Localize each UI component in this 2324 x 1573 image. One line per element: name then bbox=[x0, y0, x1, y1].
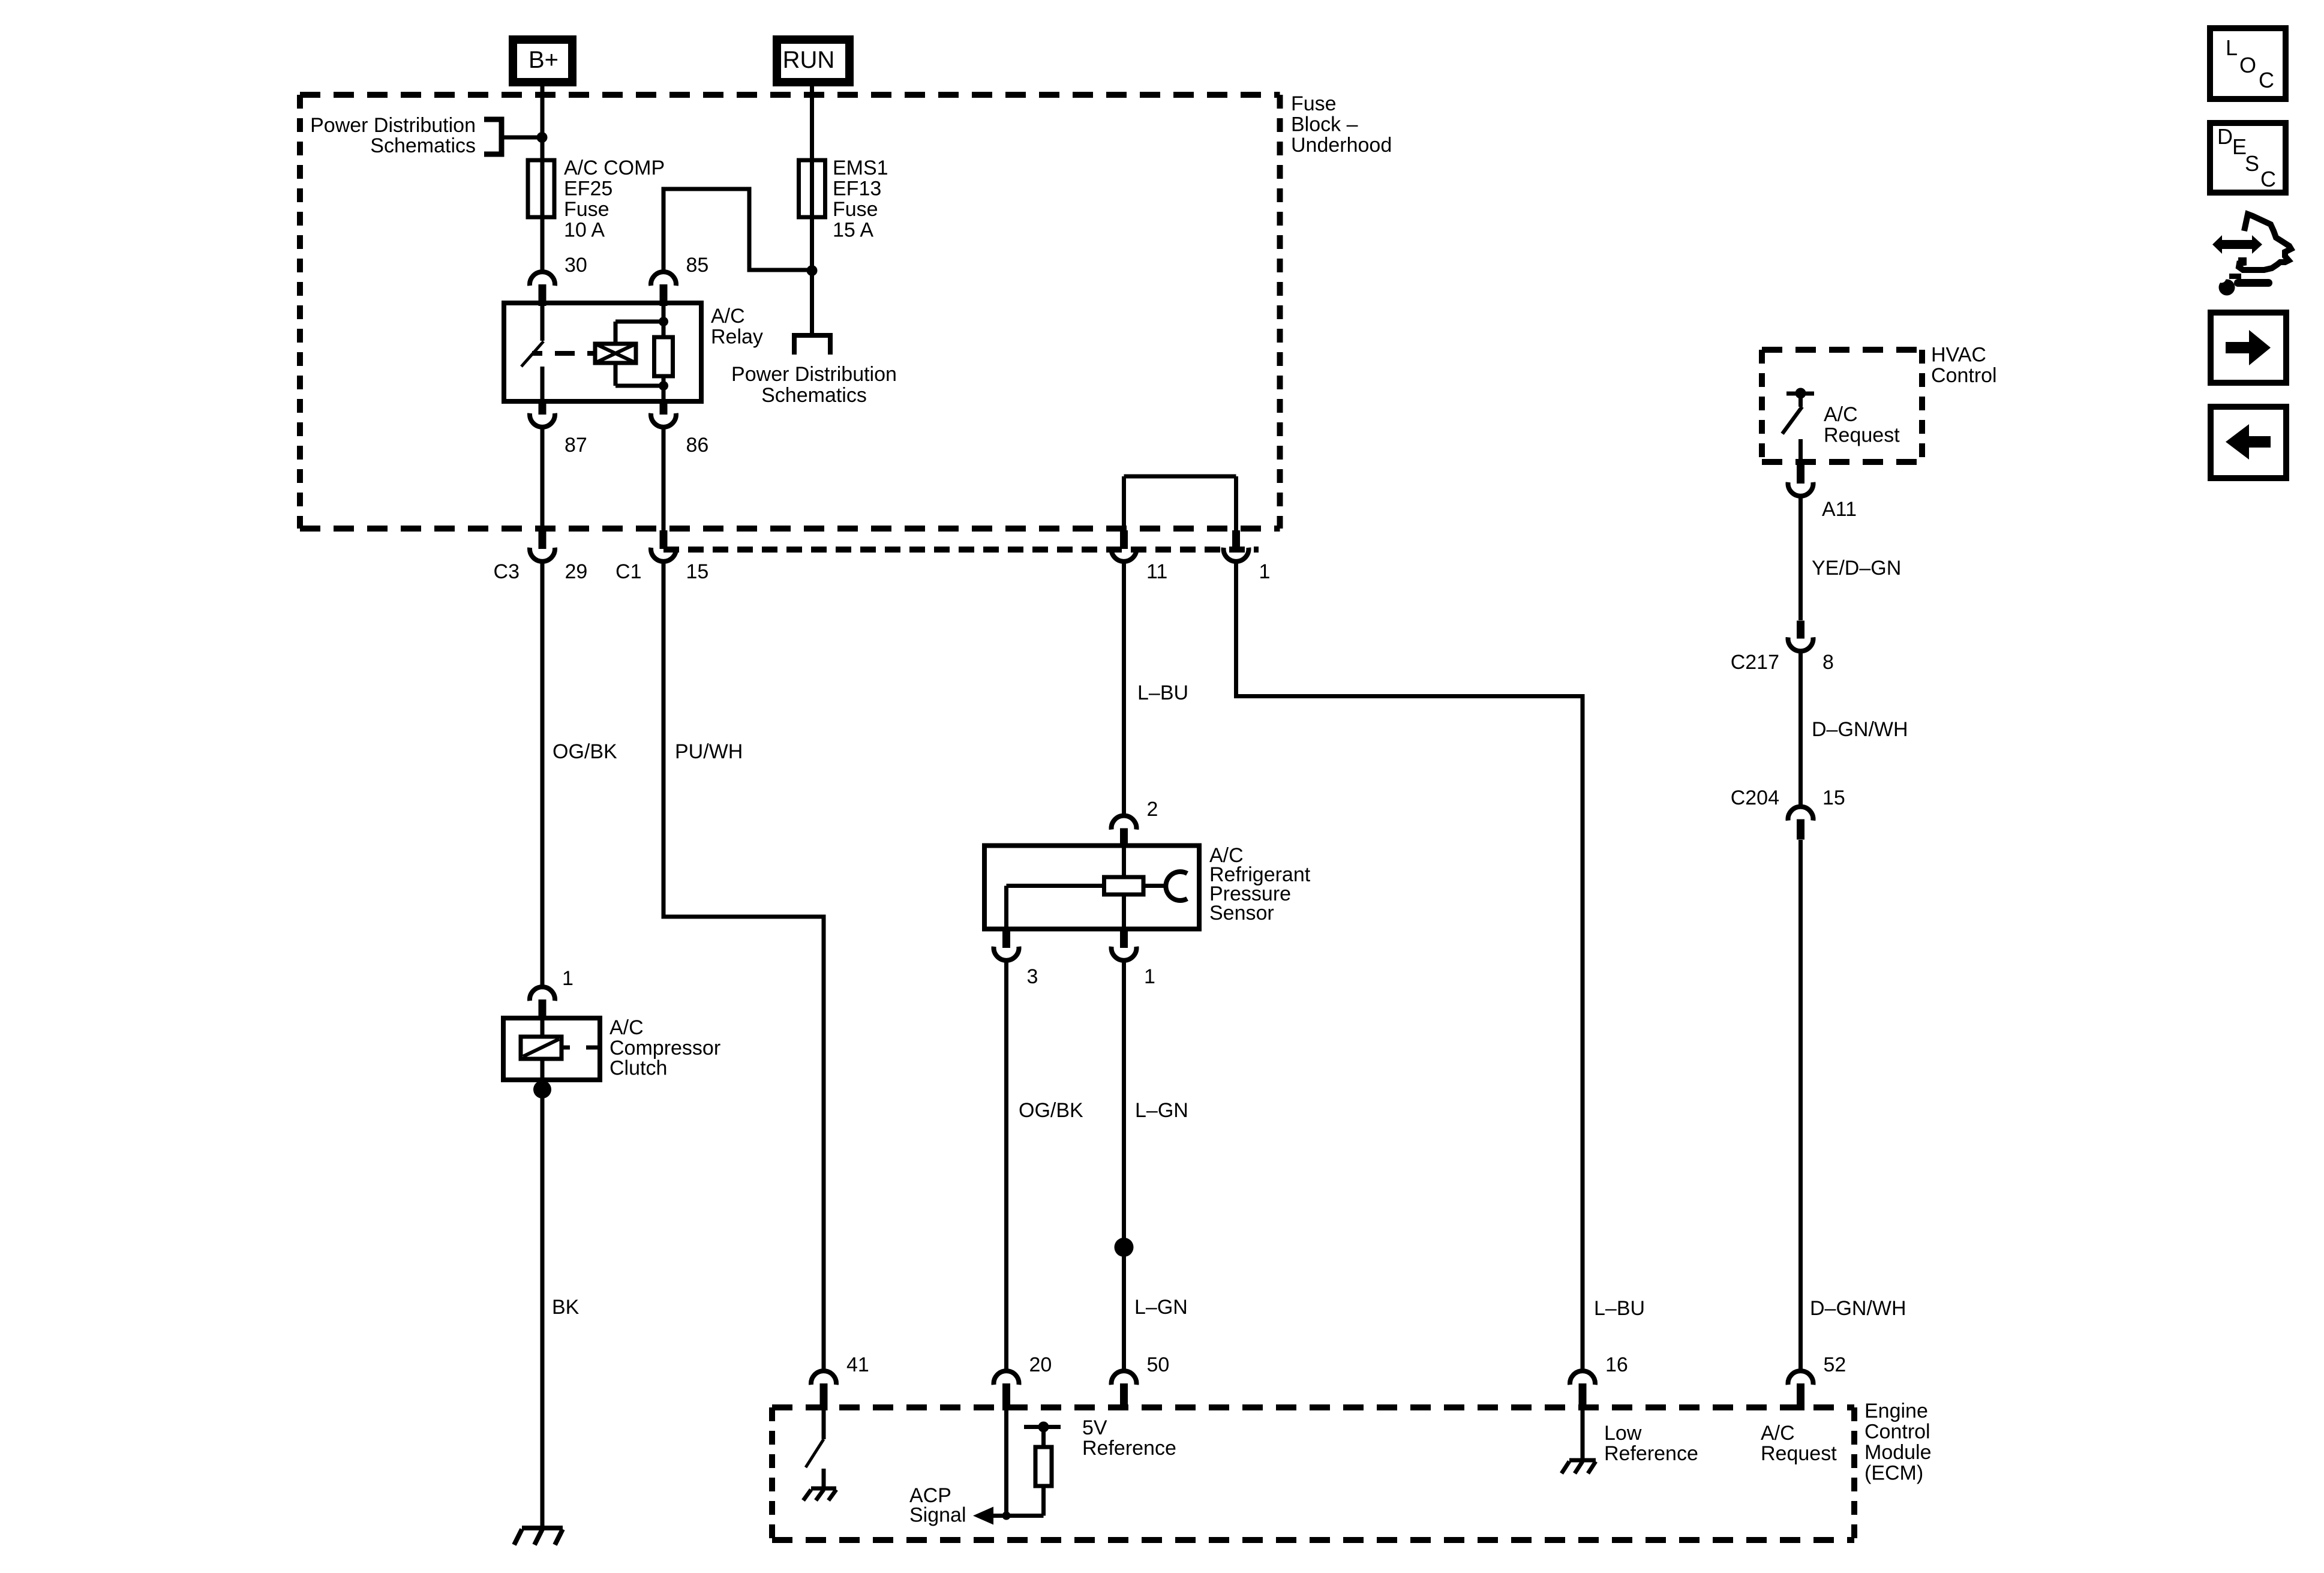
svg-text:A/C COMP: A/C COMP bbox=[564, 157, 665, 179]
svg-text:OG/BK: OG/BK bbox=[553, 740, 617, 763]
svg-text:Block –: Block – bbox=[1291, 113, 1358, 136]
svg-text:Underhood: Underhood bbox=[1291, 134, 1392, 157]
svg-text:29: 29 bbox=[565, 560, 588, 583]
svg-text:30: 30 bbox=[565, 254, 587, 277]
svg-text:50: 50 bbox=[1147, 1353, 1170, 1376]
svg-text:C217: C217 bbox=[1731, 651, 1779, 674]
svg-text:86: 86 bbox=[686, 434, 709, 457]
svg-text:Module: Module bbox=[1864, 1441, 1932, 1464]
svg-text:Power Distribution: Power Distribution bbox=[310, 114, 476, 137]
svg-text:D: D bbox=[2217, 124, 2233, 149]
svg-text:10 A: 10 A bbox=[564, 219, 605, 242]
svg-text:C3: C3 bbox=[494, 560, 520, 583]
svg-text:1: 1 bbox=[562, 967, 574, 990]
svg-text:Reference: Reference bbox=[1604, 1442, 1698, 1465]
svg-text:Fuse: Fuse bbox=[1291, 92, 1337, 115]
svg-text:15: 15 bbox=[1822, 786, 1845, 809]
svg-text:EF25: EF25 bbox=[564, 178, 612, 200]
svg-text:O: O bbox=[2239, 53, 2256, 77]
svg-text:YE/D–GN: YE/D–GN bbox=[1812, 557, 1901, 580]
svg-text:20: 20 bbox=[1029, 1353, 1052, 1376]
svg-text:87: 87 bbox=[565, 434, 587, 457]
svg-text:3: 3 bbox=[1027, 965, 1038, 988]
svg-text:16: 16 bbox=[1605, 1353, 1628, 1376]
svg-text:RUN: RUN bbox=[783, 47, 835, 73]
svg-text:S: S bbox=[2245, 151, 2259, 176]
svg-text:5V: 5V bbox=[1082, 1416, 1107, 1439]
svg-text:Request: Request bbox=[1761, 1442, 1837, 1465]
svg-text:41: 41 bbox=[846, 1353, 869, 1376]
svg-text:L–GN: L–GN bbox=[1135, 1099, 1188, 1122]
svg-text:Relay: Relay bbox=[711, 326, 763, 349]
svg-text:Power Distribution: Power Distribution bbox=[731, 363, 897, 386]
svg-text:Compressor: Compressor bbox=[609, 1037, 720, 1059]
svg-text:A/C: A/C bbox=[1824, 403, 1858, 426]
svg-text:C: C bbox=[2260, 167, 2276, 191]
svg-text:C: C bbox=[2259, 68, 2274, 92]
svg-text:OG/BK: OG/BK bbox=[1019, 1099, 1083, 1122]
svg-text:A11: A11 bbox=[1822, 498, 1857, 521]
svg-text:52: 52 bbox=[1824, 1353, 1846, 1376]
svg-text:1: 1 bbox=[1144, 965, 1155, 988]
svg-text:(ECM): (ECM) bbox=[1864, 1462, 1923, 1485]
svg-text:Clutch: Clutch bbox=[609, 1057, 667, 1080]
svg-text:EMS1: EMS1 bbox=[833, 157, 888, 179]
svg-text:Request: Request bbox=[1824, 424, 1900, 447]
svg-text:PU/WH: PU/WH bbox=[675, 740, 743, 763]
svg-text:L–BU: L–BU bbox=[1594, 1297, 1645, 1320]
svg-text:1: 1 bbox=[1259, 560, 1271, 583]
svg-text:Schematics: Schematics bbox=[761, 384, 867, 407]
svg-text:Schematics: Schematics bbox=[370, 134, 476, 157]
svg-text:Reference: Reference bbox=[1082, 1437, 1176, 1460]
svg-text:2: 2 bbox=[1147, 798, 1158, 821]
svg-text:D–GN/WH: D–GN/WH bbox=[1810, 1297, 1906, 1320]
svg-text:D–GN/WH: D–GN/WH bbox=[1812, 718, 1908, 741]
svg-text:BK: BK bbox=[552, 1296, 580, 1319]
svg-text:C204: C204 bbox=[1731, 786, 1779, 809]
svg-text:8: 8 bbox=[1822, 651, 1834, 674]
svg-text:15: 15 bbox=[686, 560, 709, 583]
svg-text:Low: Low bbox=[1604, 1422, 1642, 1445]
svg-text:C1: C1 bbox=[615, 560, 641, 583]
svg-text:B+: B+ bbox=[529, 47, 559, 73]
svg-text:A/C: A/C bbox=[609, 1016, 644, 1039]
svg-text:Control: Control bbox=[1864, 1421, 1930, 1443]
svg-text:L: L bbox=[2226, 35, 2238, 60]
svg-text:Signal: Signal bbox=[909, 1504, 966, 1527]
svg-text:L–GN: L–GN bbox=[1134, 1296, 1188, 1319]
svg-text:Control: Control bbox=[1931, 364, 1997, 387]
svg-text:Fuse: Fuse bbox=[833, 198, 878, 221]
svg-text:Fuse: Fuse bbox=[564, 198, 609, 221]
svg-text:A/C: A/C bbox=[711, 305, 745, 328]
svg-text:EF13: EF13 bbox=[833, 178, 881, 200]
svg-text:11: 11 bbox=[1146, 560, 1167, 583]
svg-text:Engine: Engine bbox=[1864, 1400, 1928, 1422]
svg-text:85: 85 bbox=[686, 254, 709, 277]
svg-text:15 A: 15 A bbox=[833, 219, 873, 242]
svg-text:A/C: A/C bbox=[1761, 1422, 1795, 1445]
svg-text:Sensor: Sensor bbox=[1209, 902, 1274, 924]
svg-text:L–BU: L–BU bbox=[1137, 682, 1188, 704]
svg-text:HVAC: HVAC bbox=[1931, 344, 1986, 367]
